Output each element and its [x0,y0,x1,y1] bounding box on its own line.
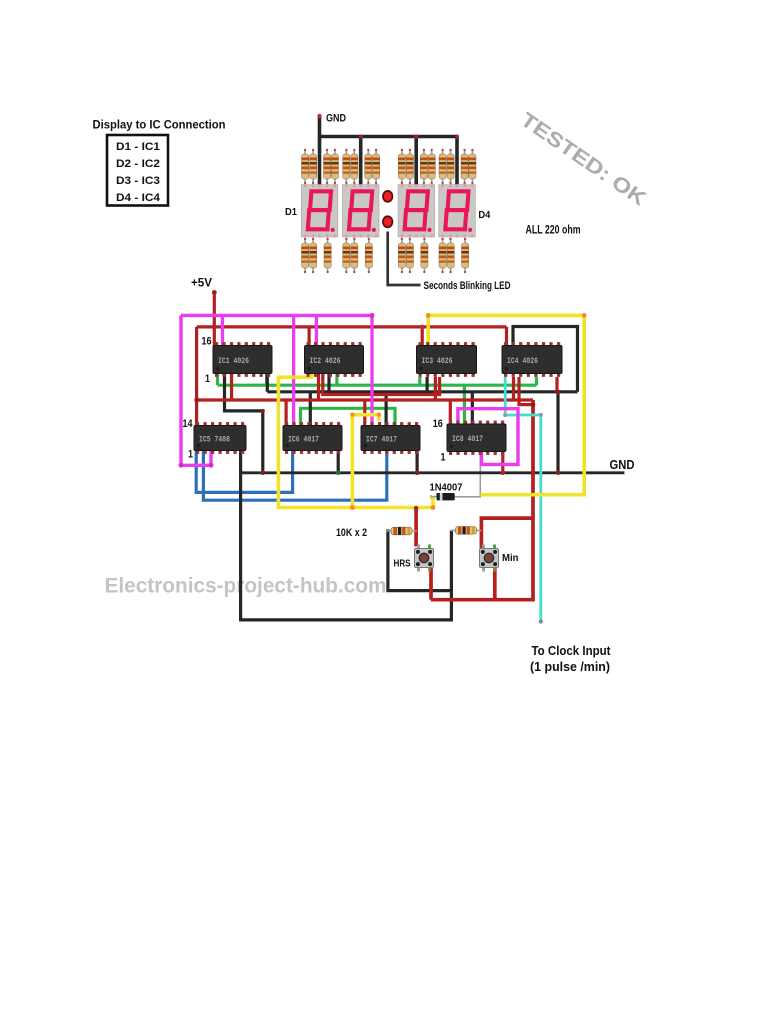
svg-text:16: 16 [202,336,212,348]
wire R3 riser IC2 pin2b [317,373,320,400]
wire Y1 drop IC3 pin2 [426,315,430,345]
junction +5V terminal [212,290,217,295]
svg-text:1: 1 [205,373,210,385]
7-segment display D2 [343,184,380,237]
wire R1 left drop to IC5 pin14 [195,327,198,426]
wire B1 bus [267,390,577,393]
wire M drop IC7 pin2 [370,315,373,425]
IC IC6 [283,422,342,454]
wire R3 riser IC1 pin3 [230,373,233,400]
junction Y3 j2 [350,413,354,417]
junction cyan j2 [539,413,543,417]
svg-text:D1: D1 [285,206,297,218]
resistor bank bottom of D1 (220 ohm x3) [302,238,332,273]
wire G1 riser IC2 pin5 [335,373,338,385]
svg-text:14: 14 [183,418,194,430]
IC IC8 [447,421,506,455]
wire Y1 bus [428,314,584,318]
wire +5V feed IC1 pin16 [213,293,216,346]
junction M left corner1 [179,463,184,468]
wire B1 drop IC8 pin4 [471,392,474,424]
wire R Min drop [493,568,497,600]
wire G1 drop IC8 pin3 [463,385,466,425]
IC IC1 [213,342,272,377]
svg-text:ALL 220 ohm: ALL 220 ohm [526,225,581,237]
wire R1 riser IC2 pin16 [308,327,311,346]
svg-text:+5V: +5V [191,276,212,290]
svg-text:(1 pulse /min): (1 pulse /min) [530,660,610,674]
svg-text:To Clock Input: To Clock Input [532,644,612,658]
junction Y2 j2 [431,505,436,510]
wire B1 drop IC7 pin6 [385,392,388,426]
wire G2 link IC6-IC7 [301,408,396,425]
junction R1-R3 junction [194,398,199,403]
resistor R9 (HRS pull-up) (10K) [386,527,417,535]
7-segment display D3 [398,184,435,237]
pushbutton SW1 HRS [415,545,434,572]
junction GND bus j B3 [261,471,265,475]
wire R3 bus [197,398,533,401]
diode D5 1N4007 [430,493,455,500]
junction B3 corner junction [261,409,265,413]
wire GND drop to D1 [318,137,322,189]
wire GND bus [241,471,625,474]
wire G1 bus [218,384,537,387]
wire R IC8 pin9 to GND [501,451,504,473]
svg-text:1: 1 [188,449,193,461]
svg-text:D1 - IC1: D1 - IC1 [116,141,161,153]
wire G1 riser IC1 pin8 [265,373,268,385]
svg-text:Seconds Blinking LED: Seconds Blinking LED [424,280,511,292]
wire R4 IC4 pin8 to B1 [555,377,558,392]
wire R HRS drop [429,568,433,600]
wire R3 riser IC3 pin1b [434,377,437,400]
IC IC3 [417,342,477,377]
legend box [107,135,168,206]
wire R3 drop IC6 pin16 [285,400,288,426]
junction Y3 j1 [377,413,381,417]
resistor bank top of D1 (220 ohm x4) [302,149,339,184]
resistor R10 (Min pull-up) (10K) [451,527,482,535]
wire B1 riser IC1 pin8 [266,373,269,392]
svg-text:1: 1 [441,452,446,464]
junction Y1 left corner [426,313,431,318]
IC IC4 [502,342,562,377]
wire black box around IC4 [513,327,578,392]
wire GND riser IC6 pin8 [337,451,340,473]
junction cyan j1 [503,413,507,417]
resistor bank top of D2 (220 ohm x4) [343,149,380,184]
wire M riser IC1 pin2 [221,315,224,345]
7-segment display D4 [439,184,476,237]
svg-text:IC6 4017: IC6 4017 [288,436,319,444]
svg-text:IC5 7408: IC5 7408 [199,436,230,444]
svg-text:16: 16 [433,418,443,430]
wire B5 GND loop to Min resistor [241,473,452,620]
wire R3 drop IC7 pin16 [363,400,366,426]
pushbutton SW2 Min [480,545,499,572]
junction R1 IC3 junction [420,325,425,330]
svg-text:IC1 4026: IC1 4026 [218,358,249,366]
resistor bank bottom of D3 (220 ohm x3) [398,238,428,273]
wire B1 drop IC6 pin4 [309,392,312,426]
7-segment display D1 [301,184,338,237]
junction M1 end [370,313,375,318]
wire M1 bus [181,314,372,317]
svg-text:IC3 4026: IC3 4026 [422,358,453,366]
junction GND bus j IC7 [415,471,419,475]
wire GND stem [318,116,322,137]
wire Gr diode to IC8 pin [455,451,481,497]
svg-text:Electronics-project-hub.com: Electronics-project-hub.com [105,574,387,598]
wire B1 riser IC2 pin4 [327,373,330,392]
svg-text:Min: Min [502,552,519,564]
wire R HRS feed [414,509,418,547]
wire GND rail [318,135,459,139]
resistor bank top of D3 (220 ohm x4) [398,149,435,184]
wire M loop around IC8 [458,409,518,465]
svg-text:D2 - IC2: D2 - IC2 [116,158,160,170]
wire R1 riser IC3 pin16 [421,327,424,346]
wire GND drop to D2 [359,137,363,189]
wire B1 drop to GND bus [556,392,559,473]
wire Y2 IC2 pin1 to diode [278,373,433,508]
wire R3 tail to buttons [431,400,533,600]
wire B1 riser IC3 pin2 [426,377,429,392]
wire M riser IC2 pin2 [315,315,318,345]
junction cyan tip [539,619,543,623]
junction R HRS top cap [414,506,419,511]
LED seconds bottom [382,215,393,228]
wire M left drop to IC5 [181,315,211,465]
wire GND drop to D3 [414,137,418,189]
wire GND riser IC7 pin8 [416,451,419,473]
junction GND bus j B1 [556,471,560,475]
IC IC7 [361,422,420,454]
svg-text:GND: GND [610,457,635,472]
junction R5 junction [531,402,536,407]
junction GND bus j IC8red [501,471,505,475]
svg-text:HRS: HRS [394,558,411,570]
wire GND drop to D4 [455,137,459,189]
wire R Min loop [481,518,532,548]
resistor bank bottom of D4 (220 ohm x3) [439,238,469,273]
wire GND riser IC5 pin7 [239,451,242,473]
wire R3 riser IC4 pin1 [512,377,515,400]
junction GND rail j2 [359,135,363,139]
wire G1 riser IC3 pin1 [418,377,421,385]
junction GND rail j4 [455,135,459,139]
wire B1 IC5-IC6 [196,451,292,492]
svg-text:IC2 4026: IC2 4026 [310,358,341,366]
IC IC5 [194,422,246,454]
junction R4-B1 junction [556,390,561,395]
wire B3 IC1 pin2 to GND bus [225,373,263,473]
wire R1 riser IC4 pin16 [505,327,508,346]
IC IC2 [305,342,364,377]
svg-text:D3 - IC3: D3 - IC3 [116,175,160,187]
wire B2 IC5-IC7 [203,451,386,500]
wire R1 bus [197,325,507,328]
wire R3a IC2-IC3 link [323,373,440,395]
junction GND rail j3 [414,135,418,139]
wire G1 riser IC1 pin1 [216,373,219,385]
junction GND stem top [317,114,321,118]
svg-text:D4 - IC4: D4 - IC4 [116,192,161,204]
svg-text:IC8 4017: IC8 4017 [452,436,483,444]
junction M left corner2 [209,463,214,468]
wire R5 IC4 pin2 to R3 tail [519,377,533,405]
svg-text:GND: GND [326,113,346,125]
svg-text:IC4 4026: IC4 4026 [507,358,538,366]
junction Y1 right corner [582,313,587,318]
svg-text:10K x 2: 10K x 2 [336,527,367,539]
wire M drop IC6 pin2 [292,315,295,425]
wire C1 IC4 to clock output [505,377,541,621]
svg-text:Display to IC Connection: Display to IC Connection [93,118,226,132]
svg-text:D4: D4 [478,209,490,221]
junction GND bus j IC6 [336,471,340,475]
wire Y1 right drop [481,315,585,494]
resistor bank bottom of D2 (220 ohm x3) [343,238,373,273]
resistor bank top of D4 (220 ohm x4) [439,149,476,184]
junction Y2 j1 [350,505,355,510]
wire R3 drop IC8 pin16 [449,400,452,424]
wire B6 HRS resistor to B5 [388,531,452,591]
svg-text:1N4007: 1N4007 [430,482,463,494]
wire Y3 IC7 pin3 link [352,415,379,508]
wire seconds LED pointer [388,232,421,286]
svg-text:IC7 4017: IC7 4017 [366,436,397,444]
wire G1 riser IC4 pin7 [535,377,538,385]
LED seconds top [382,190,393,203]
